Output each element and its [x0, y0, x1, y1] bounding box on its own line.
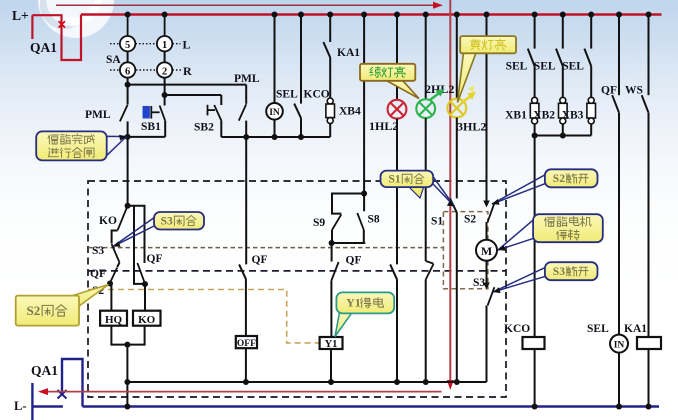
svg-text:XB2: XB2: [533, 110, 555, 122]
svg-text:KCO: KCO: [504, 323, 530, 335]
highlight arrow along top: [56, 4, 436, 6]
wire node to SB2: [165, 94, 222, 96]
contact QF (1HL2 column): [390, 264, 397, 279]
wire sub-bus down into enclosure: [245, 137, 247, 264]
wire KA1 coil to L- bus: [648, 349, 650, 407]
svg-text:XB1: XB1: [505, 110, 527, 122]
wire bus to SA contact 1: [164, 15, 166, 36]
node top of KO/QF branches: [125, 203, 131, 209]
contact SEL #2: [562, 15, 564, 49]
L+ bus (red): [81, 13, 662, 15]
svg-text:R: R: [183, 64, 192, 78]
callout: S1 closed: [408, 186, 424, 198]
svg-text:QF: QF: [601, 85, 617, 97]
motor M (energy storage): [476, 240, 497, 261]
node XB2 merge: [560, 133, 566, 139]
contact SEL #3: [590, 15, 592, 49]
SA linkage dotted lines row 1: [110, 43, 120, 45]
svg-text:S2: S2: [464, 214, 476, 226]
node return Y1 column: [328, 379, 334, 385]
svg-text:QF: QF: [346, 255, 362, 267]
node under SA2: [162, 92, 168, 98]
callout: green lamp on: [360, 64, 419, 99]
dashed QF auxiliary row line: [88, 270, 506, 272]
svg-text:KA1: KA1: [624, 323, 647, 335]
node L- KA1: [646, 404, 652, 410]
wire node to PML second contact: [128, 84, 247, 86]
svg-text:S3: S3: [553, 266, 565, 278]
contact QF (2HL2 column, NC): [426, 261, 434, 264]
svg-text:S3: S3: [161, 215, 173, 227]
svg-text:M: M: [481, 244, 492, 258]
svg-text:L: L: [183, 38, 191, 52]
wire down to KO box: [144, 284, 146, 311]
operator box KO: [133, 311, 161, 326]
svg-text:QF: QF: [147, 253, 163, 265]
QA1 closed-contact x mark: [59, 21, 66, 27]
coil Y1 (solenoid box): [320, 337, 343, 349]
highlight red return line: [44, 391, 442, 393]
svg-text:S3: S3: [92, 245, 104, 257]
node PML-SB1: [125, 134, 131, 140]
svg-text:WS: WS: [625, 85, 643, 97]
L- bus (blue): [83, 405, 660, 407]
contact SEL #1: [534, 15, 536, 49]
svg-text:KO: KO: [99, 215, 117, 227]
svg-text:IN: IN: [269, 108, 280, 118]
node S9/S8 top: [361, 191, 367, 197]
wire down from PML-SB1 node into enclosure: [127, 137, 129, 206]
node HQ-KO join: [124, 342, 130, 348]
SA linkage dotted lines row 2: [110, 69, 120, 71]
svg-text:QA1: QA1: [31, 363, 58, 378]
svg-text:L+: L+: [12, 8, 29, 23]
node L- IN: [616, 404, 622, 410]
callout: Y1 energized: [335, 292, 394, 336]
wire join down to return bus: [126, 345, 128, 407]
svg-text:SEL: SEL: [276, 89, 298, 101]
svg-text:L-: L-: [14, 399, 27, 413]
node IN on sub-bus: [272, 134, 278, 140]
svg-text:QF: QF: [90, 268, 106, 280]
svg-text:HQ: HQ: [105, 314, 123, 326]
svg-text:OFF: OFF: [237, 339, 256, 349]
connector XB1: [532, 97, 538, 103]
SA contact 5: [120, 36, 135, 51]
wire between SA 1 and 2: [164, 51, 166, 62]
svg-text:IN: IN: [614, 340, 625, 350]
SA contact 6: [120, 62, 135, 77]
contact KA1 (top of XB4 column): [329, 15, 331, 42]
highlight red vertical feeder line: [449, 0, 451, 383]
callout: storage motor stops: [498, 214, 603, 251]
node return 1HL2 column: [394, 379, 400, 385]
callout: S3 open: [493, 262, 598, 293]
indicator SEL (IN) upper: [274, 15, 276, 103]
svg-text:XB3: XB3: [562, 110, 584, 122]
node above KO operator box: [142, 281, 148, 287]
QA1 lower x mark: [58, 390, 67, 399]
node return 2HL2 column: [423, 379, 429, 385]
svg-text:QF: QF: [252, 254, 268, 266]
svg-text:S2: S2: [27, 303, 41, 318]
operator box OFF: [236, 336, 257, 348]
svg-text:1HL2: 1HL2: [369, 119, 398, 133]
wire XB merge bar: [535, 135, 592, 137]
wire return bus (inside enclosure): [127, 381, 486, 383]
svg-text:S1: S1: [431, 216, 443, 228]
wire bus down to S2 contact: [486, 15, 488, 202]
switch QA1 (lower) blue path: [31, 383, 33, 420]
svg-text:5: 5: [125, 40, 130, 51]
svg-text:S8: S8: [368, 214, 380, 226]
svg-text:SA: SA: [106, 54, 121, 66]
callout: S2 open: [492, 169, 598, 204]
svg-text:SEL: SEL: [562, 61, 584, 73]
wire bus to SA contact 5: [127, 15, 129, 36]
wire OFF down to return bus: [245, 348, 247, 382]
node L- KCO: [532, 404, 538, 410]
wire KCO coil to L- bus: [534, 349, 536, 407]
connector XB4: [327, 98, 333, 104]
wire SA2 down to node: [164, 78, 166, 95]
svg-text:Y1: Y1: [346, 296, 361, 310]
svg-text:1: 1: [162, 40, 167, 51]
contact PML (second): [245, 85, 247, 104]
green lit arrow for 2HL2: [431, 93, 441, 100]
wire HQ/KO join bracket: [111, 326, 144, 345]
svg-text:KCO: KCO: [304, 89, 330, 101]
svg-text:KO: KO: [138, 314, 156, 326]
wire bus down to S9/S8: [363, 15, 365, 194]
svg-text:S9: S9: [313, 217, 325, 229]
node above HQ: [107, 281, 113, 287]
wire Y1 down to return bus: [330, 349, 332, 382]
wire SA6 down to node: [127, 78, 129, 85]
svg-text:S2: S2: [553, 173, 565, 185]
node XB1 merge: [532, 133, 538, 139]
svg-text:SB1: SB1: [141, 121, 161, 133]
operator box HQ: [100, 311, 127, 326]
node return S1 column: [454, 379, 460, 385]
push button SB2: [207, 105, 209, 116]
lamp 2HL2 (green, lit): [425, 15, 427, 99]
wire merge down to KCO coil: [534, 136, 536, 338]
wire PML/SB1 junction bar: [120, 136, 166, 138]
contact KCO: [300, 15, 302, 104]
orange dashed path to Y1: [88, 290, 319, 343]
svg-text:QA1: QA1: [30, 40, 57, 55]
svg-text:SB2: SB2: [194, 122, 214, 134]
svg-text:S1: S1: [389, 174, 401, 186]
node S9/S8 bottom: [329, 240, 335, 246]
svg-text:6: 6: [125, 66, 130, 77]
wire IN lower to L- bus: [618, 353, 620, 407]
wire down to HQ: [110, 284, 112, 311]
svg-text:Y1: Y1: [325, 339, 338, 350]
node return C1: [124, 379, 130, 385]
svg-text:XB4: XB4: [339, 106, 361, 118]
lamp 3HL2 (yellow, lit): [456, 15, 458, 99]
node PML2 on sub-bus: [243, 134, 249, 140]
wire sub-bus under SB2/PML/IN/KCO/XB4: [221, 136, 330, 138]
node KCO on sub-bus: [298, 134, 304, 140]
svg-text:SEL: SEL: [587, 323, 609, 335]
node return OFF column: [243, 379, 249, 385]
switch QA1 (upper, closed) red path: [31, 15, 33, 39]
callout: yellow lamp on: [458, 36, 517, 102]
svg-text:PML: PML: [85, 109, 111, 121]
svg-text:2: 2: [162, 66, 167, 77]
node under SA6: [125, 82, 131, 88]
SA contact 2: [157, 62, 172, 77]
svg-text:PML: PML: [234, 73, 260, 85]
mechanism dashed enclosure box: [88, 181, 506, 397]
orange dashed box around S1: [443, 212, 488, 289]
callout: S2 closed: [16, 285, 109, 326]
lamp 1HL2 (red): [396, 15, 398, 100]
svg-text:SEL: SEL: [534, 61, 556, 73]
callout: charge complete, closing: [36, 131, 126, 160]
connector XB2: [560, 97, 566, 103]
orange dashed trip path line: [88, 247, 443, 249]
callout: S3 closed: [113, 212, 204, 247]
svg-text:SEL: SEL: [506, 61, 528, 73]
push button SB1 (pressed, blue): [164, 95, 166, 106]
node L- C1: [124, 404, 130, 410]
yellow lit arrow for 3HL2: [462, 96, 472, 103]
svg-text:3HL2: 3HL2: [457, 120, 486, 134]
SA contact 1: [157, 36, 172, 51]
wire between SA 5 and 6: [127, 51, 129, 62]
wire S9/S8 bottom join: [332, 242, 365, 244]
svg-text:KA1: KA1: [337, 47, 360, 59]
connector XB3: [588, 97, 594, 103]
